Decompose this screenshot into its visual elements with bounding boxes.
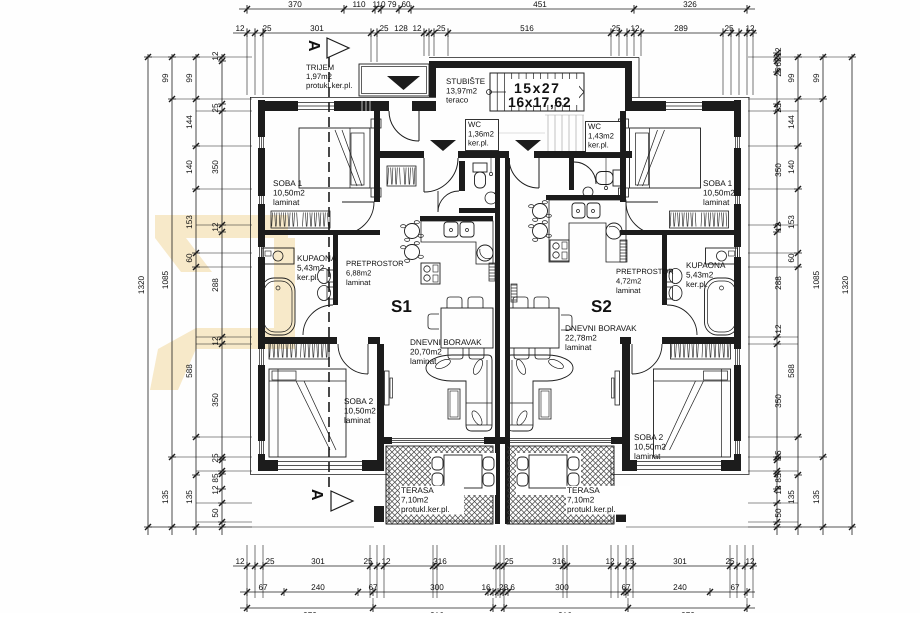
svg-text:DNEVNI BORAVAK: DNEVNI BORAVAK <box>410 338 482 347</box>
svg-text:144: 144 <box>185 115 194 129</box>
svg-text:S1: S1 <box>391 297 412 316</box>
svg-text:25: 25 <box>265 557 275 566</box>
svg-text:PRETPROSTOR: PRETPROSTOR <box>616 267 674 276</box>
svg-text:12: 12 <box>774 222 783 232</box>
svg-text:144: 144 <box>787 115 796 129</box>
svg-text:SOBA 1: SOBA 1 <box>703 179 733 188</box>
svg-text:laminat: laminat <box>565 343 592 352</box>
svg-text:10,50m2: 10,50m2 <box>273 189 305 198</box>
svg-text:ker.pl.: ker.pl. <box>468 139 489 148</box>
svg-text:25: 25 <box>262 24 272 33</box>
svg-text:WC: WC <box>588 122 601 131</box>
svg-text:12: 12 <box>211 222 220 232</box>
svg-text:135: 135 <box>787 490 796 504</box>
svg-text:DNEVNI BORAVAK: DNEVNI BORAVAK <box>565 324 637 333</box>
svg-text:326: 326 <box>683 0 697 9</box>
svg-text:350: 350 <box>774 163 783 177</box>
svg-text:60: 60 <box>401 0 411 9</box>
svg-text:25: 25 <box>611 24 621 33</box>
svg-text:25: 25 <box>379 24 389 33</box>
svg-text:12: 12 <box>774 485 783 495</box>
svg-text:50: 50 <box>774 508 783 518</box>
svg-text:140: 140 <box>185 160 194 174</box>
svg-text:20,70m2: 20,70m2 <box>410 348 442 357</box>
svg-text:85: 85 <box>211 473 220 483</box>
svg-text:110: 110 <box>372 0 385 9</box>
svg-text:A: A <box>305 40 322 52</box>
svg-text:laminat: laminat <box>703 198 730 207</box>
svg-text:5,43m2: 5,43m2 <box>297 264 325 273</box>
svg-text:KUPAONA: KUPAONA <box>297 254 337 263</box>
svg-text:PRETPROSTOR: PRETPROSTOR <box>346 259 404 268</box>
svg-text:KUPAONA: KUPAONA <box>686 261 726 270</box>
svg-text:60: 60 <box>787 253 796 263</box>
svg-text:teraco: teraco <box>446 96 469 105</box>
svg-text:451: 451 <box>533 0 547 9</box>
svg-text:50: 50 <box>211 508 220 518</box>
svg-text:25: 25 <box>211 453 220 463</box>
svg-text:135: 135 <box>161 490 170 504</box>
svg-text:ker.pl.: ker.pl. <box>297 273 319 282</box>
svg-text:S2: S2 <box>591 297 612 316</box>
svg-text:28.6: 28.6 <box>499 583 515 592</box>
svg-text:289: 289 <box>674 24 688 33</box>
svg-text:240: 240 <box>311 583 325 592</box>
svg-text:79: 79 <box>387 0 397 9</box>
svg-text:5,43m2: 5,43m2 <box>686 271 714 280</box>
svg-text:12: 12 <box>381 557 391 566</box>
svg-text:110: 110 <box>352 0 365 9</box>
svg-text:protukl.ker.pl.: protukl.ker.pl. <box>567 505 616 514</box>
svg-text:TERASA: TERASA <box>567 486 600 495</box>
svg-text:25: 25 <box>774 67 783 77</box>
svg-text:25: 25 <box>625 557 635 566</box>
svg-text:1,43m2: 1,43m2 <box>588 131 614 140</box>
svg-text:588: 588 <box>185 364 194 378</box>
svg-text:25: 25 <box>363 557 373 566</box>
svg-text:laminat: laminat <box>273 198 300 207</box>
svg-text:140: 140 <box>787 160 796 174</box>
svg-text:12: 12 <box>235 24 245 33</box>
svg-text:67: 67 <box>730 583 740 592</box>
svg-text:350: 350 <box>211 393 220 407</box>
svg-text:12: 12 <box>235 557 245 566</box>
svg-text:10,50m2: 10,50m2 <box>703 189 735 198</box>
svg-text:22,78m2: 22,78m2 <box>565 334 597 343</box>
svg-text:1,97m2: 1,97m2 <box>306 72 332 81</box>
svg-text:laminat: laminat <box>616 286 641 295</box>
svg-text:301: 301 <box>311 557 325 566</box>
svg-text:316: 316 <box>552 557 566 566</box>
svg-text:ker.pl.: ker.pl. <box>588 141 609 150</box>
svg-text:588: 588 <box>787 364 796 378</box>
svg-text:12: 12 <box>412 24 422 33</box>
svg-text:25: 25 <box>724 24 734 33</box>
svg-text:99: 99 <box>787 73 796 83</box>
svg-text:350: 350 <box>774 394 783 408</box>
svg-text:laminat: laminat <box>344 416 371 425</box>
svg-text:60: 60 <box>185 253 194 263</box>
svg-text:128: 128 <box>394 24 408 33</box>
svg-text:13,97m2: 13,97m2 <box>446 86 478 95</box>
svg-text:laminat: laminat <box>346 278 371 287</box>
svg-text:99: 99 <box>812 73 821 83</box>
svg-text:SOBA 2: SOBA 2 <box>634 433 664 442</box>
svg-text:12: 12 <box>774 324 783 334</box>
svg-text:301: 301 <box>310 24 324 33</box>
svg-text:135: 135 <box>812 490 821 504</box>
svg-text:99: 99 <box>185 73 194 83</box>
svg-text:12: 12 <box>605 557 615 566</box>
svg-text:protukl.ker.pl.: protukl.ker.pl. <box>401 505 450 514</box>
svg-text:WC: WC <box>468 120 481 129</box>
svg-text:4,72m2: 4,72m2 <box>616 277 641 286</box>
svg-text:laminat: laminat <box>634 452 661 461</box>
svg-text:1320: 1320 <box>137 275 146 294</box>
svg-text:153: 153 <box>787 215 796 229</box>
svg-text:288: 288 <box>774 276 783 290</box>
svg-text:135: 135 <box>185 490 194 504</box>
svg-text:7,10m2: 7,10m2 <box>567 496 595 505</box>
svg-text:6,88m2: 6,88m2 <box>346 269 371 278</box>
svg-text:16x17,62: 16x17,62 <box>508 94 571 110</box>
svg-text:1085: 1085 <box>812 270 821 289</box>
svg-text:TRIJEM: TRIJEM <box>306 63 334 72</box>
svg-text:12: 12 <box>211 485 220 495</box>
svg-text:16: 16 <box>481 583 491 592</box>
svg-text:153: 153 <box>185 215 194 229</box>
svg-text:12: 12 <box>211 51 220 61</box>
svg-text:7,10m2: 7,10m2 <box>401 496 429 505</box>
svg-text:1320: 1320 <box>841 275 850 294</box>
svg-text:ker.pl.: ker.pl. <box>686 280 708 289</box>
svg-text:25: 25 <box>504 557 514 566</box>
svg-text:288: 288 <box>211 278 220 292</box>
svg-text:10,50m2: 10,50m2 <box>634 443 666 452</box>
svg-text:A: A <box>308 489 325 501</box>
svg-text:516: 516 <box>520 24 534 33</box>
svg-text:10,50m2: 10,50m2 <box>344 407 376 416</box>
svg-text:laminat: laminat <box>410 357 437 366</box>
svg-text:12: 12 <box>745 557 755 566</box>
svg-text:1085: 1085 <box>161 270 170 289</box>
svg-text:350: 350 <box>211 160 220 174</box>
svg-text:SOBA 2: SOBA 2 <box>344 397 374 406</box>
svg-text:25: 25 <box>436 24 446 33</box>
svg-text:TERASA: TERASA <box>401 486 434 495</box>
svg-text:25: 25 <box>774 450 783 460</box>
svg-text:1,36m2: 1,36m2 <box>468 129 494 138</box>
svg-text:85: 85 <box>774 473 783 483</box>
svg-text:62: 62 <box>774 57 783 67</box>
svg-text:99: 99 <box>161 73 170 83</box>
svg-text:SOBA 1: SOBA 1 <box>273 179 303 188</box>
svg-text:301: 301 <box>673 557 687 566</box>
svg-text:12: 12 <box>774 47 783 57</box>
svg-text:316: 316 <box>433 557 447 566</box>
svg-text:370: 370 <box>288 0 302 9</box>
svg-text:240: 240 <box>673 583 687 592</box>
svg-text:12: 12 <box>630 24 640 33</box>
svg-text:STUBIŠTE: STUBIŠTE <box>446 77 485 86</box>
